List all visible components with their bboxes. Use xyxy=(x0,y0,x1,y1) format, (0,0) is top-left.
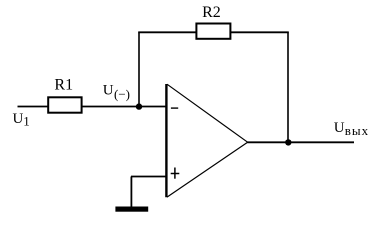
node output junction dot xyxy=(285,139,291,145)
wire input left segment xyxy=(18,106,49,108)
svg-text:R1: R1 xyxy=(54,77,73,94)
label Uvyx output voltage xyxy=(334,120,369,138)
wire feedback right vertical xyxy=(287,32,289,142)
svg-text:U: U xyxy=(334,120,345,136)
svg-text:R2: R2 xyxy=(202,4,221,21)
wire R2 to right corner xyxy=(230,31,288,33)
wire non-inverting input horizontal xyxy=(131,176,166,178)
ground xyxy=(115,207,148,212)
wire feedback top-left horizontal xyxy=(138,31,196,33)
svg-text:вых: вых xyxy=(345,123,369,138)
wire output xyxy=(248,141,355,143)
op-amp U1 xyxy=(166,84,247,197)
svg-text:1: 1 xyxy=(23,113,30,128)
svg-text:(−): (−) xyxy=(114,87,130,102)
wire ground vertical xyxy=(130,177,132,208)
svg-text:U: U xyxy=(103,82,114,98)
resistor R2 xyxy=(196,4,230,39)
svg-text:U: U xyxy=(13,111,24,127)
wire feedback left vertical xyxy=(138,32,140,106)
label U1 input voltage xyxy=(13,111,30,128)
resistor R1 xyxy=(48,77,81,113)
wire R1 to op-amp inverting input xyxy=(82,106,166,108)
node U(-) junction dot xyxy=(103,82,142,110)
